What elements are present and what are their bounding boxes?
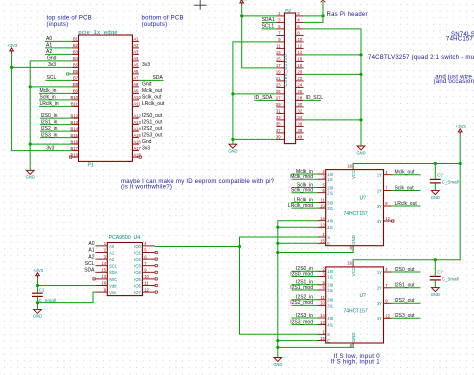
svg-text:U?: U? (360, 293, 367, 299)
svg-text:4I1: 4I1 (327, 323, 333, 328)
svg-text:top side of PCB: top side of PCB (47, 16, 92, 22)
ground (below P2 left) (229, 144, 237, 148)
svg-text:(outputs): (outputs) (142, 22, 168, 28)
svg-text:P1: P1 (88, 163, 94, 169)
svg-text:4I0: 4I0 (327, 316, 333, 321)
svg-text:11: 11 (320, 198, 325, 203)
svg-text:2I1: 2I1 (327, 191, 333, 196)
svg-text:1Y: 1Y (377, 173, 382, 178)
svg-text:B16: B16 (71, 139, 79, 144)
svg-text:IO1: IO1 (134, 250, 141, 255)
svg-text:C_Small: C_Small (442, 180, 459, 185)
svg-text:A2: A2 (109, 257, 115, 262)
svg-text:Mclk_out: Mclk_out (142, 88, 163, 94)
svg-text:A17: A17 (133, 146, 141, 151)
wire +3V3 vertical to B17 row (12, 54, 72, 151)
svg-text:S: S (327, 235, 330, 240)
svg-text:B14: B14 (71, 126, 79, 131)
wire U2 GND pin to rail (278, 345, 353, 347)
svg-text:+3V3: +3V3 (237, 0, 248, 2)
svg-text:If S high, input 1: If S high, input 1 (331, 359, 381, 366)
svg-text:I2S2_mod: I2S2_mod (290, 300, 313, 306)
svg-text:Ras Pi header: Ras Pi header (327, 12, 368, 18)
svg-text:I2S0_in: I2S0_in (41, 113, 58, 119)
svg-text:I2S3_out: I2S3_out (142, 132, 163, 138)
wire pin4 to 5V rail (304, 2, 323, 22)
svg-text:GND: GND (351, 235, 356, 245)
svg-text:I2S3_out: I2S3_out (395, 313, 416, 319)
wire Sclk_mod (292, 192, 318, 194)
P2 left pins odd 1-39 (276, 16, 284, 139)
svg-text:A1: A1 (88, 248, 94, 254)
no-connect end A18 (139, 156, 141, 158)
svg-text:74CBTLV3257 (quad 2:1 switch -: 74CBTLV3257 (quad 2:1 switch - mu (368, 55, 474, 61)
svg-text:B1: B1 (73, 37, 79, 42)
svg-text:GND: GND (273, 362, 282, 367)
svg-text:A1: A1 (46, 43, 52, 49)
svg-text:25: 25 (276, 89, 281, 94)
wire select S net vertical (240, 237, 318, 334)
wire SCL to pin B7 (46, 79, 73, 81)
wire Vss with jog (38, 292, 96, 303)
svg-text:GND: GND (431, 195, 440, 200)
svg-text:E: E (327, 339, 330, 344)
ground (cap1) (431, 191, 439, 195)
wire pin14 (304, 54, 361, 56)
svg-text:35: 35 (276, 122, 281, 127)
svg-text:IO4: IO4 (134, 270, 141, 275)
svg-text:+3V3: +3V3 (456, 124, 467, 129)
svg-text:12: 12 (385, 216, 390, 221)
svg-text:GND: GND (351, 333, 356, 343)
wire VCC rail 2 to U2 (353, 260, 435, 263)
svg-text:A5: A5 (133, 63, 139, 68)
wire LRclk_out (392, 205, 421, 207)
wire +3V3 to Vdd and C1 (37, 278, 39, 292)
no-connect end B18 (70, 156, 72, 158)
svg-text:A15: A15 (133, 133, 141, 138)
svg-text:Sclk_mod: Sclk_mod (291, 188, 313, 194)
svg-text:16: 16 (297, 57, 302, 62)
wire pin6 to right gnd rail (304, 29, 361, 146)
wire Mclk_in (292, 173, 318, 175)
svg-text:13: 13 (101, 274, 106, 279)
svg-text:3Y: 3Y (377, 204, 382, 209)
svg-text:28: 28 (297, 96, 302, 101)
P2 right pins even 2-40 (296, 16, 304, 139)
svg-text:IO2: IO2 (134, 257, 141, 262)
junction right gnd rail / pin14 (359, 53, 362, 56)
svg-text:19: 19 (276, 70, 281, 75)
svg-text:GND: GND (26, 175, 35, 180)
power +3V3 (left) (10, 48, 14, 54)
capacitor C? (lower) with C_Small (434, 260, 436, 276)
junction ground rail / B8 (29, 85, 32, 88)
svg-text:A3: A3 (133, 50, 139, 55)
junction gnd rail / pin39 wire (231, 138, 234, 141)
svg-text:A10: A10 (133, 95, 141, 100)
svg-text:pcie_1x_edge: pcie_1x_edge (78, 30, 117, 36)
svg-text:C1: C1 (39, 288, 45, 293)
junction ground rail / B16 (29, 143, 32, 146)
wire Sclk_out (392, 190, 421, 192)
svg-text:VCC: VCC (351, 267, 356, 276)
svg-text:17: 17 (276, 63, 281, 68)
wire stub B6 (69, 73, 72, 75)
svg-text:Vss: Vss (109, 290, 116, 295)
svg-text:A1: A1 (133, 37, 139, 42)
wire pin34 (304, 119, 361, 121)
svg-text:B11: B11 (71, 102, 79, 107)
svg-text:GND: GND (33, 314, 42, 319)
ground (U4) (34, 309, 42, 313)
svg-text:bottom of PCB: bottom of PCB (142, 16, 184, 22)
svg-text:A4: A4 (133, 56, 139, 61)
junction rail1 / C? cap1 (434, 162, 437, 165)
wire SDA1 to pin 3 (262, 21, 277, 23)
power +3V3 (above P2) (240, 0, 244, 5)
svg-text:12: 12 (385, 314, 390, 319)
wire Vdd (38, 285, 96, 287)
svg-text:I2S1_out: I2S1_out (395, 283, 416, 289)
svg-text:B10: B10 (71, 95, 79, 100)
svg-text:B15: B15 (71, 133, 79, 138)
wire to pin B16 (30, 143, 72, 145)
svg-text:GND: GND (431, 292, 440, 297)
svg-text:A12: A12 (133, 113, 141, 118)
svg-text:LRclk_mod: LRclk_mod (288, 203, 313, 209)
no-connect end pin 12 (4Y) (392, 220, 394, 222)
junction rail1 / +3V3 (459, 162, 462, 165)
junction mid gnd / U2 GND (276, 346, 279, 349)
svg-text:74HCT157: 74HCT157 (344, 309, 368, 315)
wire I2S2_mod (292, 304, 318, 306)
wire I2S2_in (292, 299, 318, 301)
wire A2 to pin B3 (45, 53, 72, 55)
svg-text:A2: A2 (88, 254, 94, 260)
wire 3v3 to pin B5 (12, 66, 72, 68)
svg-text:B17: B17 (71, 146, 79, 151)
IC U? 74HCT157 (I2S mux) body, pins and texts (326, 267, 384, 343)
svg-text:4Y: 4Y (377, 316, 382, 321)
svg-text:I2S3_mod: I2S3_mod (290, 319, 313, 325)
junction +3V3 / B5 (10, 66, 13, 69)
junction mid gnd / U1 pin13 (276, 226, 279, 229)
svg-text:4Y: 4Y (377, 219, 382, 224)
svg-text:ID_SDA: ID_SDA (254, 95, 273, 101)
junction S net / U4 IO0 (238, 245, 241, 248)
svg-text:B6: B6 (73, 69, 79, 74)
svg-text:A13: A13 (133, 120, 141, 125)
svg-text:I2S3_in: I2S3_in (296, 313, 313, 319)
wire U4 IO0 to S net (155, 246, 240, 248)
svg-text:14: 14 (320, 216, 325, 221)
wire Sclk_in (292, 187, 318, 189)
svg-text:10: 10 (320, 203, 325, 208)
wire U1 GND pin to rail (278, 248, 353, 253)
svg-text:3v3: 3v3 (142, 62, 150, 68)
wire Mclk_in to pin B9 (39, 92, 72, 94)
svg-text:15: 15 (101, 268, 106, 273)
svg-text:74HCT157: 74HCT157 (344, 211, 368, 217)
svg-text:A16: A16 (133, 139, 141, 144)
wire I2S3_in to pin B15 (40, 137, 72, 139)
svg-text:39: 39 (276, 135, 281, 140)
svg-text:13: 13 (320, 223, 325, 228)
svg-text:B5: B5 (73, 63, 79, 68)
svg-text:3I0: 3I0 (327, 298, 333, 303)
wire VCC rail 1 (353, 164, 460, 260)
svg-text:31: 31 (276, 109, 281, 114)
svg-text:12: 12 (297, 44, 302, 49)
wire pin20 (304, 73, 361, 75)
wire I2S3_mod (292, 324, 318, 326)
svg-text:A6: A6 (133, 69, 139, 74)
svg-text:SDA1: SDA1 (262, 17, 275, 23)
connector P2 Conn_02x20 body (284, 13, 295, 144)
wire I2S1_in (292, 284, 318, 286)
cursor crosshair (194, 0, 207, 10)
svg-text:A2: A2 (46, 49, 52, 55)
svg-text:20: 20 (297, 70, 302, 75)
svg-text:29: 29 (276, 102, 281, 107)
svg-text:B8: B8 (73, 82, 79, 87)
svg-text:A14: A14 (133, 126, 141, 131)
svg-text:A2: A2 (133, 43, 139, 48)
wire LRclk_in to pin B11 (39, 105, 72, 107)
svg-text:26: 26 (297, 89, 302, 94)
svg-text:11: 11 (320, 295, 325, 300)
svg-text:1Y: 1Y (377, 270, 382, 275)
svg-text:I2S1_in: I2S1_in (41, 119, 58, 125)
svg-text:14: 14 (320, 313, 325, 318)
svg-text:2Y: 2Y (377, 188, 382, 193)
svg-text:C?: C? (437, 173, 443, 178)
svg-text:I2S1_out: I2S1_out (142, 119, 163, 125)
svg-text:11: 11 (144, 281, 149, 286)
junction mid gnd / U1 pin15 (E) (276, 242, 279, 245)
svg-text:16: 16 (347, 261, 352, 266)
power +3V3 (right) (458, 129, 462, 135)
IC U? 74HCT157 (clock mux) body, pins and texts (326, 170, 384, 246)
svg-text:B3: B3 (73, 50, 79, 55)
ground (right of P2) (357, 146, 365, 150)
svg-text:C?: C? (437, 270, 443, 275)
svg-text:33: 33 (276, 115, 281, 120)
svg-text:3I0: 3I0 (327, 200, 333, 205)
svg-text:11: 11 (276, 44, 281, 49)
svg-text:+3V3: +3V3 (7, 43, 18, 48)
connector P1 pcie_1x_edge body (79, 35, 133, 161)
svg-text:GND: GND (228, 149, 237, 154)
svg-text:SDA: SDA (109, 270, 118, 275)
P1 left pin numbers B1-B18 (71, 37, 79, 158)
svg-text:15: 15 (276, 57, 281, 62)
wire +3V3 down to pin17 row (242, 6, 277, 68)
wire to pin 25 (233, 93, 277, 95)
svg-text:Sclk_out: Sclk_out (142, 95, 162, 101)
svg-text:22: 22 (297, 76, 302, 81)
svg-text:3I1: 3I1 (327, 303, 333, 308)
svg-text:3I1: 3I1 (327, 206, 333, 211)
svg-text:I2S0_mod: I2S0_mod (290, 271, 313, 277)
svg-text:4I1: 4I1 (327, 225, 333, 230)
junction right gnd rail / pin20 (359, 73, 362, 76)
svg-text:3v3: 3v3 (142, 145, 150, 151)
svg-text:14: 14 (297, 50, 302, 55)
ground (left) (26, 170, 34, 174)
svg-text:U?: U? (360, 196, 367, 202)
svg-text:B9: B9 (73, 89, 79, 94)
svg-text:23: 23 (276, 83, 281, 88)
svg-text:SDA: SDA (84, 268, 95, 274)
wire A0 to pin B1 (45, 40, 72, 42)
svg-text:SCL: SCL (85, 261, 95, 267)
svg-text:10: 10 (297, 37, 302, 42)
svg-text:ID_SCL: ID_SCL (306, 95, 324, 101)
svg-text:30: 30 (297, 102, 302, 107)
wire ID_SDA to pin 27 (254, 99, 276, 101)
svg-text:B4: B4 (73, 56, 79, 61)
P1 right pin numbers A1-A18 (133, 37, 141, 158)
svg-text:P2: P2 (285, 8, 291, 13)
junction mid gnd / U1 GND (276, 251, 279, 254)
svg-text:27: 27 (276, 96, 281, 101)
svg-text:21: 21 (276, 76, 281, 81)
svg-text:Sclk_in: Sclk_in (40, 95, 56, 101)
svg-text:C_Small: C_Small (442, 277, 459, 282)
wire ground rail left of P2 to pin 9 (233, 42, 277, 139)
wire LRclk_mod (292, 207, 318, 209)
svg-text:10: 10 (144, 274, 149, 279)
wire to pin 1 (242, 15, 277, 17)
capacitor C? (upper) with C_Small (434, 164, 436, 179)
wire U2 pin15 (278, 340, 318, 342)
svg-text:I2S2_in: I2S2_in (41, 126, 58, 132)
svg-text:B2: B2 (73, 43, 79, 48)
power +5V (above P2 right, clipped) (321, 0, 326, 2)
svg-text:IO7: IO7 (134, 290, 141, 295)
svg-text:SCL1: SCL1 (262, 24, 275, 30)
junction right gnd rail / pin34 (359, 118, 362, 121)
wire Mclk_mod (292, 178, 318, 180)
svg-text:IO0: IO0 (134, 244, 141, 249)
svg-text:A0: A0 (109, 244, 115, 249)
svg-text:PCA9500: PCA9500 (109, 235, 131, 241)
svg-text:E: E (327, 241, 330, 246)
wire I2S2_in to pin B14 (40, 130, 72, 132)
wire I2S2_out (392, 302, 421, 304)
svg-text:2I1: 2I1 (327, 288, 333, 293)
junction C1 / Vss wire (36, 301, 39, 304)
svg-text:24: 24 (297, 83, 302, 88)
wire stem to ground (232, 139, 234, 144)
svg-text:LRclk_out: LRclk_out (395, 201, 418, 207)
junction mid gnd / U2 pin15 (E) (276, 339, 279, 342)
svg-text:(is it worthwhile?): (is it worthwhile?) (121, 184, 172, 190)
U4 right pins with numbers and names (134, 241, 155, 295)
svg-text:I2S0_out: I2S0_out (142, 113, 163, 119)
svg-text:2Y: 2Y (377, 286, 382, 291)
wire SCL1 to pin 5 (262, 28, 277, 30)
svg-text:Mclk_in: Mclk_in (40, 88, 57, 94)
svg-text:(inputs): (inputs) (47, 22, 69, 28)
junction +3V3 / Vdd wire (36, 284, 39, 287)
svg-text:Conn_02x20: Conn_02x20 (283, 53, 288, 86)
svg-text:VCC: VCC (351, 170, 356, 179)
wire I2S0_in to pin B12 (40, 117, 72, 119)
wire I2S3_out (392, 317, 421, 319)
svg-text:SCL: SCL (47, 75, 57, 81)
svg-text:Gnd: Gnd (142, 82, 152, 88)
svg-text:A11: A11 (133, 102, 141, 107)
svg-text:I2S1_mod: I2S1_mod (290, 285, 313, 291)
svg-text:40: 40 (297, 135, 302, 140)
svg-text:3v3: 3v3 (46, 145, 54, 151)
junction +3V3 / pin1 (240, 14, 243, 17)
wire I2S3_in (292, 317, 318, 319)
wire LRclk_in (292, 202, 318, 204)
wire I2S1_in to pin B13 (40, 124, 72, 126)
svg-text:36: 36 (297, 122, 302, 127)
svg-text:16: 16 (101, 281, 106, 286)
svg-text:I2S3_in: I2S3_in (41, 132, 58, 138)
ground (cap2) (431, 288, 439, 292)
wire Gnd to pin B4 and ground rail (30, 61, 72, 170)
svg-text:GND: GND (356, 150, 365, 155)
P1 right pins A1-A18 (132, 41, 139, 157)
svg-text:12: 12 (144, 287, 149, 292)
svg-text:14: 14 (101, 261, 106, 266)
svg-text:SDA: SDA (153, 75, 164, 81)
wire U1 pin15 (278, 242, 318, 244)
svg-text:A0: A0 (46, 36, 52, 42)
wire I2S1_out (392, 287, 421, 289)
U4 unconnected IO pin ends (155, 251, 157, 293)
svg-text:15: 15 (320, 239, 325, 244)
svg-text:A9: A9 (133, 89, 139, 94)
svg-text:10: 10 (320, 301, 325, 306)
capacitor C1 C_Small (32, 292, 43, 294)
svg-text:IO5: IO5 (134, 277, 141, 282)
svg-text:74HC157 (s: 74HC157 (s (446, 37, 474, 43)
svg-text:B13: B13 (71, 120, 79, 125)
svg-text:Gnd: Gnd (47, 56, 57, 62)
svg-text:Sclk_out: Sclk_out (395, 185, 415, 191)
P2 right pin numbers (297, 11, 302, 140)
svg-text:LRclk_out: LRclk_out (142, 101, 165, 107)
svg-text:IO6: IO6 (134, 283, 141, 288)
junction gnd rail / pin25 wire (231, 92, 234, 95)
svg-text:I2S2_out: I2S2_out (142, 126, 163, 132)
svg-text:A1: A1 (109, 250, 115, 255)
ground (below muxes) (274, 358, 282, 362)
svg-text:I2S2_out: I2S2_out (395, 298, 416, 304)
svg-text:38: 38 (297, 128, 302, 133)
svg-text:A8: A8 (133, 82, 139, 87)
wire I2S0_mod (292, 276, 318, 278)
svg-text:Vdd: Vdd (109, 283, 117, 288)
svg-text:34: 34 (297, 115, 302, 120)
IC U4 PCA9500 body (107, 243, 142, 296)
svg-text:1I1: 1I1 (327, 177, 333, 182)
wire A1 to pin B2 (45, 47, 72, 49)
wire +3V3 to rail (459, 135, 461, 164)
svg-text:B7: B7 (73, 76, 79, 81)
power +3V3 (U4) (36, 273, 40, 279)
svg-text:Mclk_out: Mclk_out (395, 170, 416, 176)
wire pin2 to 5V rail (304, 15, 323, 17)
